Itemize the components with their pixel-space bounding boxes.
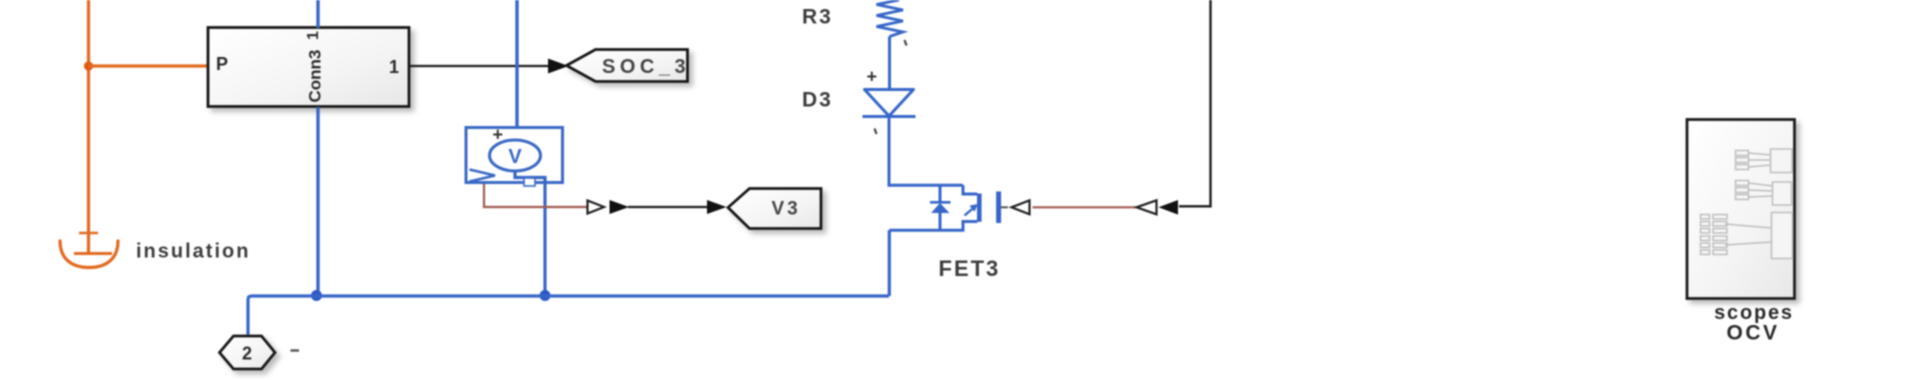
voltage sensor circle bbox=[490, 140, 541, 171]
svg-text:1: 1 bbox=[389, 57, 399, 77]
subsystem block scopes OCV bbox=[1687, 120, 1795, 299]
svg-text:R3: R3 bbox=[802, 6, 833, 29]
arrowhead (filled, pointing left) bbox=[1159, 200, 1179, 215]
svg-text:Conn3: Conn3 bbox=[305, 50, 324, 103]
port marker: hollow triangle bbox=[1137, 200, 1157, 214]
insulation electrode bar bbox=[74, 252, 112, 255]
block Conn3 bbox=[208, 28, 409, 107]
svg-text:V3: V3 bbox=[772, 199, 801, 220]
node: orange junction bbox=[84, 61, 93, 70]
svg-text:+: + bbox=[867, 67, 878, 87]
svg-text:SOC_3: SOC_3 bbox=[602, 56, 690, 78]
sensor port square marker bbox=[524, 178, 535, 186]
sensor output chevron bbox=[470, 170, 496, 182]
mosfet FET3 bbox=[889, 185, 1008, 230]
svg-text:OCV: OCV bbox=[1726, 322, 1779, 345]
svg-text:D3: D3 bbox=[802, 89, 833, 112]
polarity tick (D3 minus) bbox=[875, 129, 877, 135]
voltage sensor V (block) bbox=[466, 128, 563, 183]
wire: blue from Conn3 bottom to bus bbox=[316, 107, 319, 296]
node: junction at sensor branch bbox=[540, 290, 551, 301]
wire: D3 to FET3 drain bbox=[889, 117, 963, 185]
svg-text:1: 1 bbox=[305, 31, 322, 40]
wire: black signal to V3 bbox=[628, 206, 708, 208]
scopes preview row2 sources bbox=[1736, 181, 1773, 200]
port 2 hexagon bbox=[220, 336, 276, 369]
wire: orange vertical net bbox=[87, 0, 90, 252]
svg-text:FET3: FET3 bbox=[939, 256, 1001, 281]
arrowhead into V3 bbox=[707, 200, 727, 214]
insulation electrode tick bbox=[79, 232, 98, 235]
wire: blue top into voltage sensor bbox=[515, 0, 518, 141]
arrowhead into SOC_3 bbox=[548, 59, 569, 74]
wire: blue top into Conn3 port 1 bbox=[316, 0, 319, 28]
scopes preview row2 scope bbox=[1773, 182, 1792, 205]
arrowhead (filled) bbox=[610, 200, 630, 214]
wire: sensor internal to bus bbox=[515, 171, 545, 296]
svg-text:insulation: insulation bbox=[136, 241, 250, 263]
svg-text:+: + bbox=[493, 125, 504, 145]
insulation cup arc bbox=[60, 241, 118, 268]
wire: brown PS gate line bbox=[1033, 206, 1137, 208]
label minus (port 2) bbox=[291, 349, 300, 351]
svg-text:V: V bbox=[508, 146, 522, 168]
resistor R3 bbox=[877, 0, 904, 37]
wire: brown PS signal from sensor bbox=[484, 184, 587, 207]
scopes preview row1 scope bbox=[1771, 149, 1793, 173]
svg-text:2: 2 bbox=[242, 344, 252, 364]
scopes preview row1 sources bbox=[1736, 151, 1771, 170]
wire: black signal Conn3 out to SOC_3 bbox=[410, 65, 550, 67]
wire: orange horizontal to Conn3 P bbox=[89, 64, 208, 67]
diode D3 bbox=[863, 90, 916, 117]
scopes preview row3 sources bbox=[1701, 215, 1772, 255]
port marker: hollow triangle bbox=[588, 201, 605, 214]
wire: blue bottom bus bbox=[248, 296, 889, 335]
svg-text:P: P bbox=[216, 54, 228, 74]
wire: black from top to gate bbox=[1179, 0, 1211, 206]
polarity tick (R3 minus) bbox=[905, 40, 907, 46]
goto tag SOC_3 bbox=[567, 50, 691, 82]
scopes preview row3 scope bbox=[1772, 213, 1793, 259]
wire: FET3 source down to bus bbox=[888, 230, 891, 296]
node: junction at Conn3 branch bbox=[311, 290, 322, 301]
wire: R3 to D3 bbox=[888, 37, 891, 91]
goto tag V3 bbox=[728, 189, 821, 229]
port marker: hollow triangle at gate bbox=[1012, 200, 1030, 214]
